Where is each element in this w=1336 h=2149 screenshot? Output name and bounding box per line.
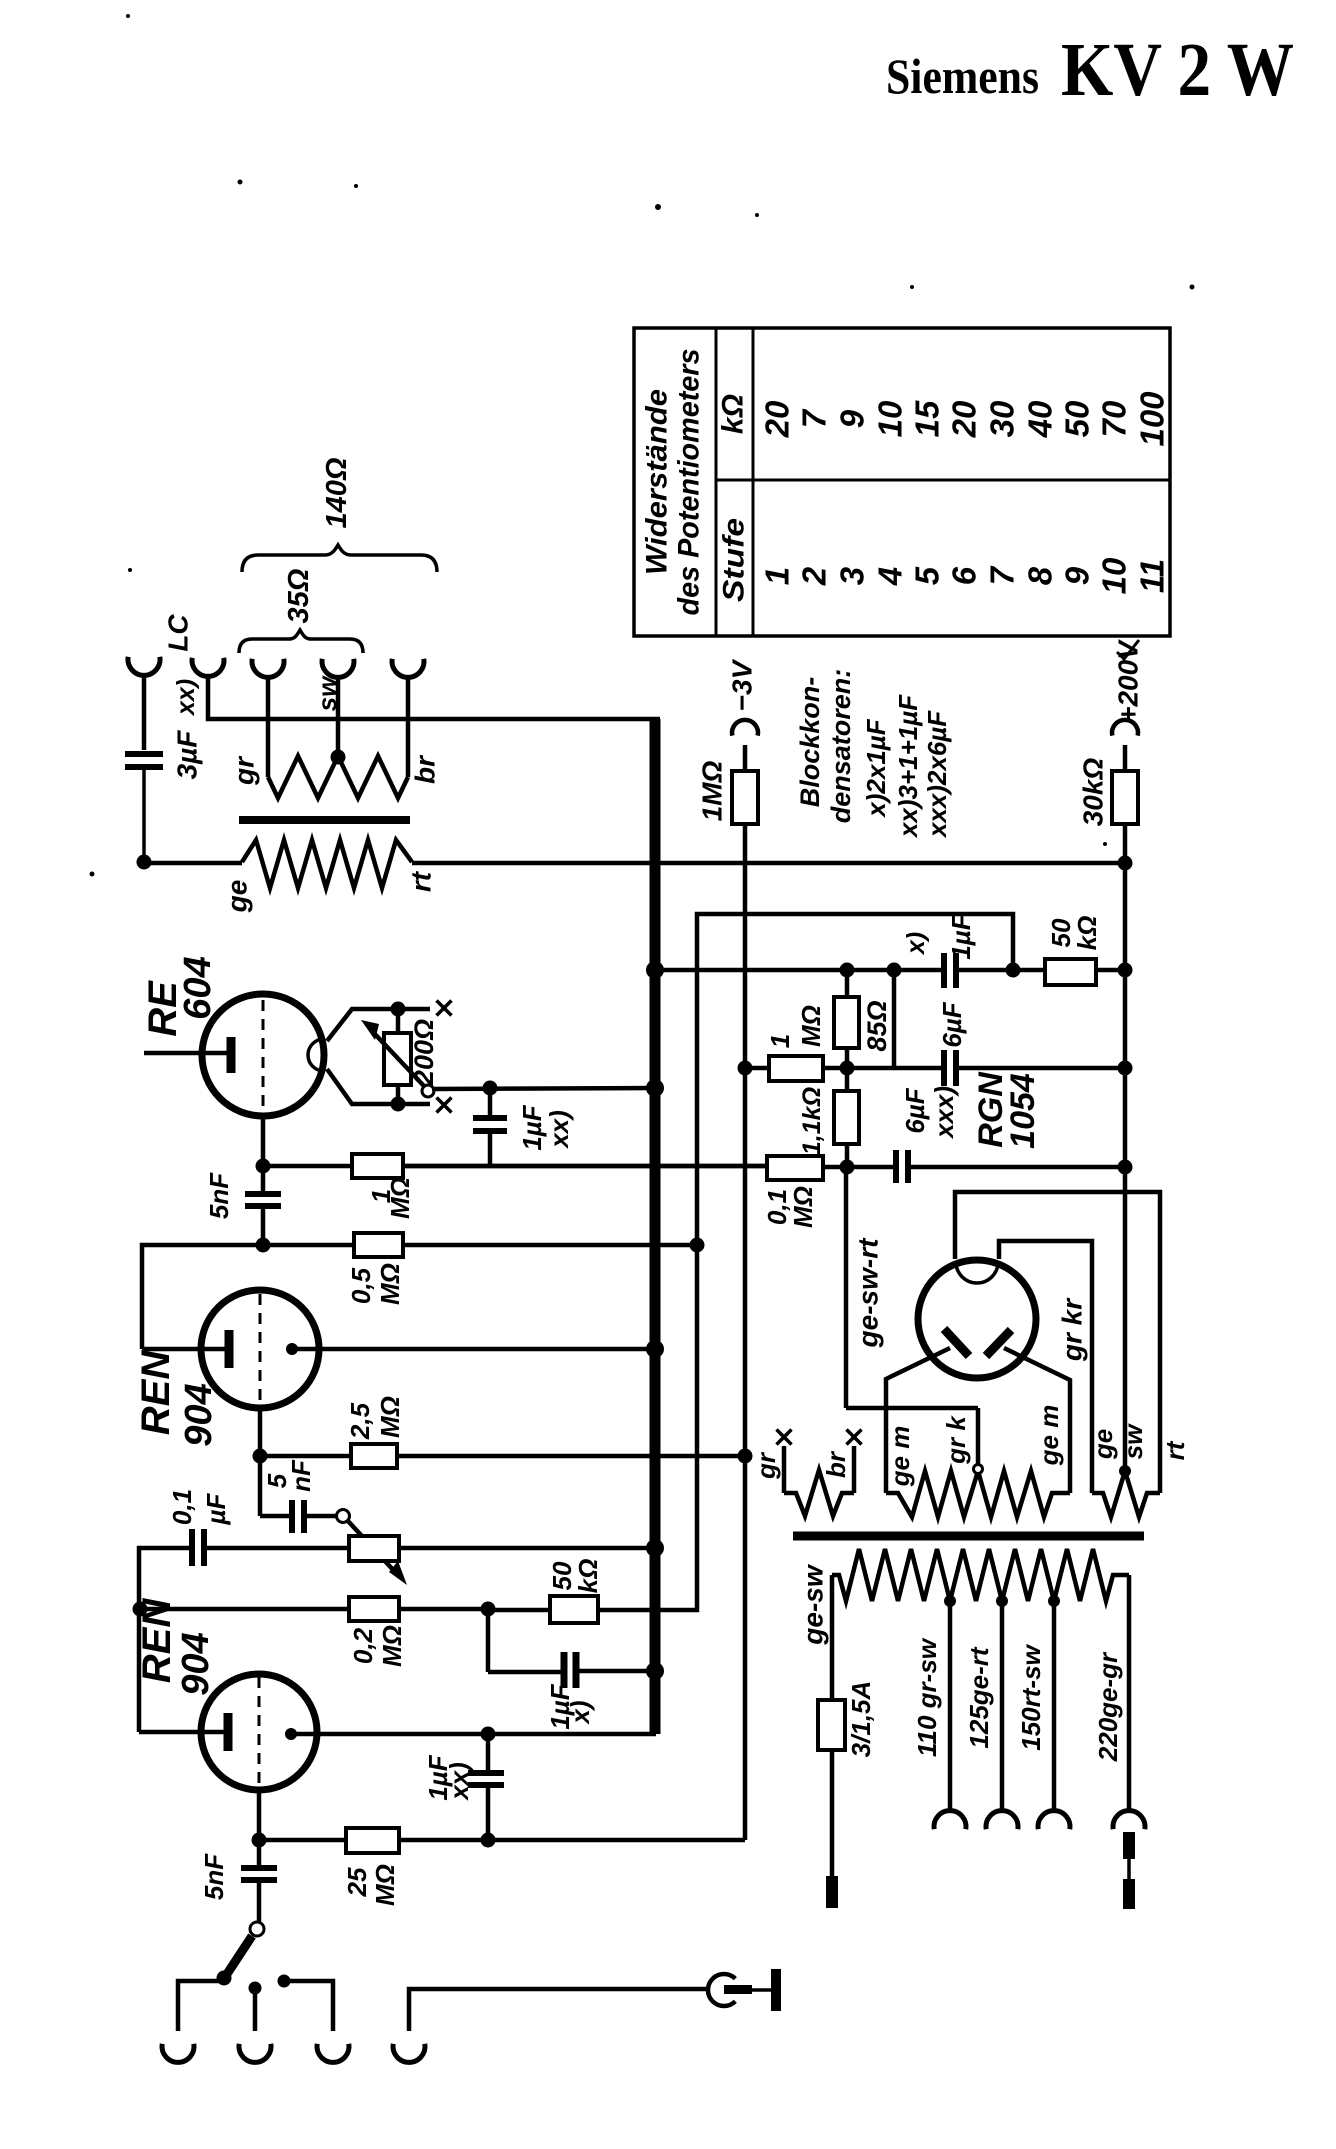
label 5nF third [199,1853,229,1900]
wire center tap riser ge-sw-rt [846,1167,978,1467]
phone jack socket and plug [708,1969,781,2011]
tap 150V [1048,1595,1060,1812]
node junction 3uF and winding ge [137,855,152,870]
label 125ge-rt [964,1646,994,1748]
winding primary 110-220V [832,1549,1129,1601]
label RGN 1054 [972,1071,1042,1149]
table row Stufe values 1-11 [759,557,1171,594]
wire RE604 filament bottom lead [327,1069,406,1112]
label 0,2 MOhm [348,1625,407,1667]
potentiometer gr-sw-br input [268,750,408,799]
svg-text:sw: sw [1118,1423,1148,1459]
label 1MOhm [697,760,728,821]
resistor 1MOhm RE604 grid [263,1154,767,1178]
svg-text:140Ω: 140Ω [321,457,353,528]
transformer T2 core [793,1532,1144,1541]
capacitor 0,1uF [139,1529,349,1609]
wire ge-rt line to 30k node [144,861,1125,866]
svg-text:Blockkon-: Blockkon- [795,677,825,808]
svg-text:5nF: 5nF [204,1172,234,1219]
table header kOhm [717,394,750,434]
rheostat wiper arrow [361,1020,434,1097]
terminal input 5 br [392,659,424,777]
fuse 3/1,5A [818,1575,845,1878]
svg-text:xx): xx) [444,1762,474,1802]
label sw [1118,1423,1148,1459]
svg-text:gr kr: gr kr [1057,1297,1088,1362]
svg-text:15: 15 [909,400,946,437]
svg-text:3: 3 [834,567,871,585]
label 140 Ohm [321,457,353,528]
label ge m right [1034,1405,1064,1467]
svg-text:30: 30 [984,400,1021,437]
svg-text:x): x) [902,932,930,956]
label 200 Ohm [409,1019,439,1086]
wire stub to x top [398,1001,452,1016]
label 1,1kOhm [798,1087,826,1155]
plug pin 220 [1123,1832,1135,1909]
svg-text:xx): xx) [544,1110,574,1150]
svg-text:densatoren:: densatoren: [826,669,856,824]
svg-text:220ge-gr: 220ge-gr [1093,1651,1123,1762]
wire -3V bias vertical [743,824,748,1840]
node bus junction wiper line [646,1079,664,1097]
label 25 MOhm [342,1864,400,1906]
label 1uF x) [545,1683,595,1729]
contact output 2 [249,1982,262,2032]
brace 35 Ohm [239,630,363,653]
tube RE604 [202,994,324,1116]
label 50 kOhm coupling [1046,916,1102,951]
svg-text:kΩ: kΩ [717,394,750,434]
label 3uF [172,730,203,780]
capacitor 1uF xx second [468,1734,504,1840]
resistor 2,5 MOhm [260,1444,753,1468]
label ge [222,880,253,914]
svg-text:0,2: 0,2 [348,1627,378,1664]
svg-text:Stufe: Stufe [718,518,751,602]
svg-text:ge m: ge m [885,1426,915,1488]
terminal input 3 gr [252,659,284,777]
svg-text:5nF: 5nF [199,1853,229,1900]
wire grid REN904 second to bus [291,1727,656,1742]
capacitor 5nF third [241,1840,277,1922]
svg-text:20: 20 [946,400,983,438]
svg-text:1: 1 [759,567,796,585]
wire node 970 line [655,963,1021,978]
svg-text:10: 10 [1096,557,1133,594]
svg-text:70: 70 [1096,400,1133,437]
wire RE604 cathode down [256,1116,271,1174]
capacitor 1uF x anode [488,1609,651,1688]
svg-text:9: 9 [834,409,871,428]
svg-text:9: 9 [1059,566,1096,585]
svg-text:MΩ: MΩ [375,1396,405,1438]
svg-text:1054: 1054 [1004,1073,1042,1149]
wire RGN filament right to ge-sw [999,1241,1092,1493]
node bus junction B line [646,961,664,979]
svg-text:x): x) [565,1700,595,1725]
contact output 1 [178,1981,219,2031]
svg-text:ge-sw: ge-sw [798,1563,829,1646]
svg-text:904: 904 [175,1632,217,1695]
svg-text:MΩ: MΩ [796,1005,826,1047]
wire riser to 6uF [892,970,897,1068]
label 5nF [204,1172,234,1219]
node bus junction 1uF x [646,1662,664,1680]
terminal +200V [1112,720,1138,771]
svg-text:5: 5 [909,566,946,585]
tap 110V [944,1595,956,1812]
title Siemens KV 2 W [886,28,1294,112]
svg-text:6: 6 [946,566,983,585]
potentiometer volume 50k body [349,1536,651,1561]
terminal LC input 1 [128,657,160,750]
svg-text:xx): xx) [172,679,200,717]
label ge-sw primary [798,1563,829,1646]
label -3V [727,658,758,711]
svg-text:MΩ: MΩ [375,1263,405,1305]
svg-text:110 gr-sw: 110 gr-sw [912,1637,942,1757]
svg-text:LC: LC [163,614,194,652]
svg-text:xx)3+1+1µF: xx)3+1+1µF [893,694,923,839]
svg-text:x)2x1µF: x)2x1µF [861,718,891,818]
resistor 1MOhm grid bias [732,771,758,824]
wire anode REN904 first [142,1347,225,1352]
svg-text:ge: ge [222,880,253,914]
terminal output jack 3 [317,2044,349,2063]
label rt [406,870,437,892]
label ge [1088,1429,1118,1460]
resistor 50kOhm anode [488,914,1013,1623]
label 0,5 MOhm [346,1263,405,1305]
svg-text:1,1kΩ: 1,1kΩ [798,1087,826,1155]
svg-text:Siemens: Siemens [886,48,1039,104]
resistor 25 MOhm [259,1828,745,1853]
svg-text:0,5: 0,5 [346,1267,376,1304]
svg-text:xxx): xxx) [929,1086,959,1140]
resistor 50kOhm coupling [1045,959,1133,985]
bus chassis grid line [650,719,661,1734]
label gr [229,755,260,786]
label 0,1 MOhm [762,1186,818,1228]
wire anode RE604 [144,1051,227,1056]
svg-text:7: 7 [796,408,833,428]
resistor 1,1kOhm [834,1068,859,1167]
svg-text:Widerstände: Widerstände [641,389,674,575]
node bus junction grid1 [646,1340,664,1358]
svg-text:br: br [410,754,441,784]
tap 125V [996,1595,1008,1812]
wire jack4 to phone jack [409,1989,707,2031]
svg-text:50: 50 [1059,400,1096,437]
tube REN904 second [201,1674,317,1790]
wire grid REN904 first to bus [292,1347,651,1352]
terminal x br [847,1430,862,1445]
svg-text:REN: REN [135,1598,179,1684]
transformer T1 core [239,816,410,824]
svg-text:gr k: gr k [941,1415,971,1465]
tube REN904 first [201,1290,319,1408]
winding ge-rt secondary [242,840,412,888]
capacitor 1uF xx on cathode [473,1088,507,1166]
svg-text:µF: µF [201,1492,231,1525]
svg-text:1: 1 [765,1034,795,1048]
svg-text:85Ω: 85Ω [862,1000,892,1051]
winding anode ge m - gr k - ge m [886,1465,1070,1518]
svg-text:ge: ge [1088,1429,1118,1460]
wire RE604 filament top lead [327,1002,406,1042]
svg-text:3/1,5A: 3/1,5A [846,1681,876,1758]
svg-text:nF: nF [286,1459,316,1492]
capacitor 5nF RE604 grid [245,1166,281,1245]
node +200V rail junction [1118,824,1133,871]
svg-text:1µF: 1µF [946,913,976,959]
label br [410,754,441,784]
label REN 904 second [135,1598,217,1696]
table header Stufe [718,518,751,602]
svg-text:1MΩ: 1MΩ [697,760,728,821]
svg-text:xxx)2x6µF: xxx)2x6µF [922,710,952,839]
resistor 30kOhm [1112,771,1138,824]
table Widerstaende des Potentiometers frame [634,328,1170,636]
terminal -3V [732,720,758,771]
svg-text:11: 11 [1134,559,1171,593]
svg-text:0,1: 0,1 [167,1489,197,1525]
label x) [902,932,930,956]
wire wiper to bus [432,1081,651,1096]
svg-text:MΩ: MΩ [788,1186,818,1228]
resistor 85 Ohm [834,970,859,1068]
svg-text:35Ω: 35Ω [283,568,315,623]
terminal input 4 sw wiper [322,659,354,756]
svg-text:125ge-rt: 125ge-rt [964,1646,994,1748]
terminal input 2 xx [192,658,660,719]
svg-text:20: 20 [759,400,796,438]
winding LS secondary gr-br [784,1446,854,1516]
svg-text:100: 100 [1134,391,1171,447]
svg-text:40: 40 [1022,400,1059,438]
resistor 1 MOhm divider [738,1056,942,1081]
svg-text:gr: gr [751,1451,781,1480]
switch output selector [217,1922,265,1986]
tube RGN1054 [918,1260,1036,1378]
svg-text:MΩ: MΩ [385,1177,415,1219]
svg-text:8: 8 [1022,566,1059,585]
svg-text:ge-sw-rt: ge-sw-rt [853,1237,884,1349]
winding filament ge-sw-rt [1092,1465,1160,1517]
svg-text:904: 904 [178,1383,220,1446]
svg-text:+200V: +200V [1113,639,1144,723]
label br winding [821,1450,851,1478]
contact output 3 [278,1975,334,2032]
terminal mains 150 [1038,1811,1070,1830]
wire cathode REN904 first [253,1408,268,1464]
svg-text:rt: rt [1160,1440,1190,1460]
wire stub to x bottom [398,1098,452,1113]
plug pin fuse side [826,1876,838,1908]
rheostat 200 Ohm filament [384,1009,411,1104]
label 220ge-gr [1093,1651,1123,1762]
svg-text:ge m: ge m [1034,1405,1064,1467]
terminal output jack 4 [393,2044,425,2063]
label 0,1 uF [167,1489,231,1526]
svg-text:7: 7 [984,565,1021,585]
label 1uF xx) [517,1104,574,1150]
svg-text:REN: REN [134,1350,178,1436]
brace 140 Ohm [242,545,437,572]
svg-text:3µF: 3µF [172,730,203,780]
note Blockkondensatoren [795,669,952,839]
wire RGN anode left lead [886,1348,950,1493]
node junction 0,1uF and 0,2M [133,1602,148,1617]
svg-text:6µF: 6µF [937,1001,967,1047]
terminal mains 125 [986,1811,1018,1830]
label 6uF xxx) [900,1086,959,1140]
svg-text:25: 25 [342,1867,372,1897]
svg-text:30kΩ: 30kΩ [1078,758,1109,827]
label 2,5 MOhm [345,1396,405,1440]
paper speckle [90,14,1195,877]
svg-text:604: 604 [177,956,219,1019]
label gr kr [1057,1297,1088,1362]
svg-text:2: 2 [796,566,833,586]
label 3/1,5A [846,1681,876,1758]
wire anode REN904 second [139,1609,224,1732]
terminal mains 110 [934,1811,966,1830]
wire primary right to 220 [1127,1575,1132,1812]
label 150rt-sw [1016,1643,1046,1750]
svg-text:br: br [821,1450,851,1478]
svg-text:2,5: 2,5 [345,1402,375,1440]
svg-text:−3V: −3V [727,658,758,711]
capacitor 5nF second [260,1456,337,1533]
resistor 0,1 MOhm divider [403,1156,893,1180]
resistor 0,2 MOhm [140,1597,496,1621]
label 50kOhm anode [547,1559,603,1594]
label ge m left [885,1426,915,1488]
svg-text:10: 10 [872,400,909,437]
label 35 Ohm [283,568,315,623]
capacitor 3uF input [125,754,163,862]
capacitor 1uF x coupling [944,953,1045,988]
check mark below table [1117,640,1139,659]
label xx) [172,679,200,717]
label 5nF second [262,1459,316,1492]
label 1uF xx) second [423,1754,474,1802]
svg-text:MΩ: MΩ [370,1864,400,1906]
label gr k [941,1415,971,1465]
label rt winding [1160,1440,1190,1460]
svg-text:KV 2 W: KV 2 W [1061,28,1294,112]
wire RGN filament left to rt [955,1192,1160,1493]
terminal x gr [777,1430,792,1445]
svg-text:sw: sw [312,675,342,711]
label 110 gr-sw [912,1637,942,1757]
terminal mains 220 [1113,1811,1145,1830]
label gr winding [751,1451,781,1480]
label 6uF [937,1001,967,1047]
label LC [163,614,194,652]
label 1 MOhm [366,1177,415,1219]
svg-text:kΩ: kΩ [573,1559,603,1594]
svg-text:gr: gr [229,755,260,786]
switch wiper regeneration [337,1510,408,1586]
resistor 0.5 MOhm [142,1233,705,1349]
wire cathode REN904 second [252,1790,267,1848]
svg-text:kΩ: kΩ [1072,916,1102,951]
label REN 904 first [134,1350,220,1447]
svg-text:des Potentiometers: des Potentiometers [673,349,706,616]
wire +200V rail vertical [1123,863,1128,1468]
svg-text:1µF: 1µF [517,1104,547,1150]
capacitor 6uF [944,1050,1133,1086]
svg-text:150rt-sw: 150rt-sw [1016,1643,1046,1750]
capacitor 6uF xxx [896,1150,1133,1183]
label 30kOhm [1078,758,1109,827]
node grid junction 5nF [256,1238,271,1253]
table title Widerstaende des Potentiometers [641,349,706,616]
label 85 Ohm [862,1000,892,1051]
label +200V [1113,639,1144,723]
label 1 MOhm divider [765,1005,826,1048]
node bus junction pot line [646,1539,664,1557]
svg-text:6µF: 6µF [900,1087,930,1133]
label sw [312,675,342,711]
terminal output jack 2 [239,2044,271,2063]
svg-text:rt: rt [406,870,437,892]
label ge-sw-rt [853,1237,884,1349]
wire RGN anode right lead [1004,1348,1070,1493]
terminal output jack 1 [162,2044,194,2063]
table row kOhm values 20 7 9 10 15 20 30 40 50 70 100 [759,391,1171,447]
svg-text:4: 4 [872,567,909,586]
label RE 604 [141,956,219,1036]
svg-text:MΩ: MΩ [377,1625,407,1667]
label 1uF coupling [946,913,976,959]
